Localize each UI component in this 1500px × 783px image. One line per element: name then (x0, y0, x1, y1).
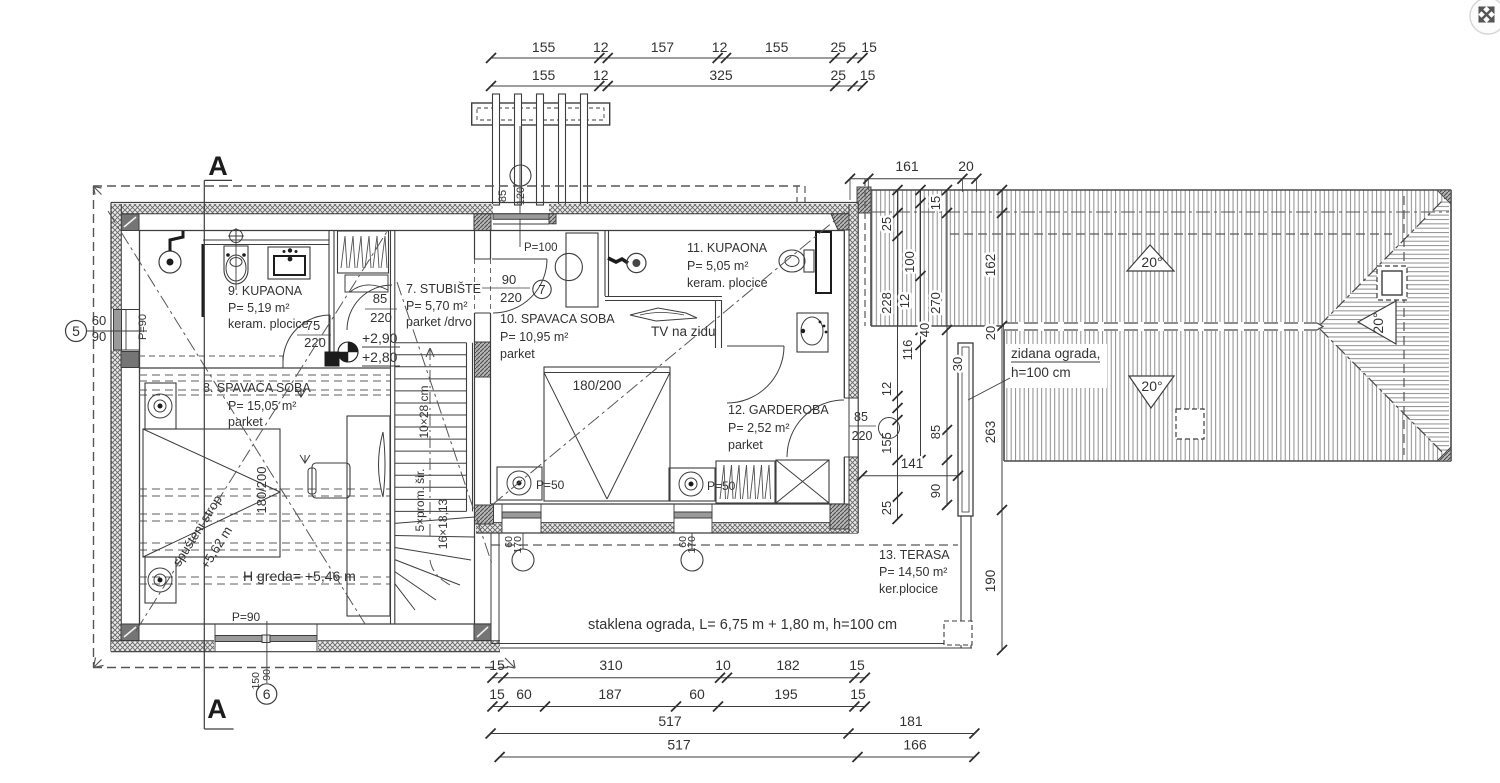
terrace fence zidana ograda upper (958, 343, 973, 516)
circled 5 marker (66, 321, 87, 342)
svg-text:181: 181 (899, 713, 923, 729)
dim extension from wall (849, 179, 851, 200)
svg-text:P= 14,50 m²: P= 14,50 m² (879, 565, 947, 579)
circled 7 (533, 280, 551, 298)
east bottom window 2 frame (674, 512, 712, 518)
svg-text:13. TERASA: 13. TERASA (879, 548, 950, 562)
shower counter line along top wall (203, 239, 329, 241)
stair diagonal dash-dot (397, 282, 492, 564)
east block bottom wall inner face (491, 503, 844, 505)
svg-text:parket: parket (228, 415, 263, 429)
window P=90 bottom frame (215, 636, 317, 642)
top wall inner face line (139, 230, 844, 232)
svg-text:220: 220 (370, 310, 392, 325)
svg-text:staklena ograda, L= 6,75 m + 1: staklena ograda, L= 6,75 m + 1,80 m, h=1… (588, 617, 897, 633)
svg-text:100: 100 (902, 251, 917, 273)
svg-text:90: 90 (92, 329, 106, 344)
svg-text:166: 166 (903, 737, 927, 753)
svg-text:P=90: P=90 (137, 314, 149, 340)
room10 door arc (493, 259, 547, 313)
roof lower band vertical hatch (1004, 326, 1451, 461)
toilet 9 (224, 246, 248, 284)
svg-text:15: 15 (860, 67, 876, 83)
terrace fence lower double line (960, 516, 962, 648)
svg-text:P= 2,52 m²: P= 2,52 m² (728, 421, 790, 435)
bathroom9 bottom wall solid line (139, 367, 390, 369)
svg-text:+2,90: +2,90 (362, 330, 398, 346)
tick row1 (594, 53, 604, 63)
stair winders (395, 517, 475, 523)
chimney C1 dashed outer (1377, 266, 1407, 300)
shower head circle (159, 251, 181, 273)
east bottom window 1 frame (502, 512, 541, 518)
east block bottom wall insulation hatch (476, 523, 502, 533)
top wall outer edge line (111, 202, 858, 204)
room10 bed outline (544, 367, 670, 501)
svg-text:20°: 20° (1370, 312, 1386, 333)
svg-text:162: 162 (983, 254, 998, 277)
overhang dashed vertical at terrace edge 2 (804, 186, 806, 203)
roof eave overhang dashed line top (950, 233, 1392, 235)
shower partition thick line (202, 244, 205, 317)
window downpipe circle 1 (522, 533, 524, 549)
roof eave overhang dashed line right (1403, 196, 1405, 455)
corner block top-left (121, 214, 139, 231)
room12 door arc (right wall) (787, 400, 844, 457)
svg-text:270: 270 (928, 292, 943, 314)
roof hip diagonal upper dashed (1320, 194, 1449, 325)
svg-text:60: 60 (516, 686, 532, 702)
svg-text:A: A (207, 694, 227, 724)
bottom dim row B line (492, 706, 865, 708)
stair-room10 wall line left (474, 230, 476, 259)
svg-text:12: 12 (897, 294, 912, 308)
room8 bed V lines (143, 429, 280, 492)
slope triangle 20 up (1127, 245, 1174, 271)
svg-text:keram. plocice: keram. plocice (228, 317, 309, 331)
stair right rail double line (466, 343, 468, 512)
dim 161-20 line (850, 178, 978, 180)
svg-text:220: 220 (852, 429, 873, 443)
svg-text:P=90: P=90 (232, 610, 261, 624)
room11-12 partition double line (715, 301, 717, 349)
vent circle-cross on wall (230, 230, 243, 243)
svg-text:90: 90 (928, 484, 943, 498)
svg-text:180/200: 180/200 (254, 467, 269, 514)
right wall inner face (843, 231, 845, 399)
room11 door leaf (727, 345, 784, 347)
svg-text:517: 517 (658, 713, 682, 729)
svg-text:60: 60 (689, 686, 705, 702)
slope triangle 20 down (1129, 376, 1174, 408)
pergola post 4 (559, 94, 566, 205)
svg-text:85: 85 (373, 291, 387, 306)
svg-text:85: 85 (497, 190, 509, 202)
svg-text:zidana ograda,: zidana ograda, (1011, 346, 1100, 361)
room8 chair (312, 463, 350, 498)
tick row1 (603, 53, 613, 63)
svg-text:20: 20 (983, 326, 998, 340)
tick row1 (486, 53, 496, 63)
svg-text:15: 15 (850, 686, 866, 702)
west block diagonal dash-dot 1 (136, 230, 388, 631)
svg-text:40: 40 (917, 323, 932, 337)
east block SE corner dark block (830, 504, 858, 529)
stair-room10 wall line right lower (490, 313, 492, 504)
window P=100 jamb left block (474, 214, 491, 231)
tick row1 (830, 53, 840, 63)
chimney C2 dashed (1176, 409, 1204, 439)
svg-text:16×18,13: 16×18,13 (436, 498, 450, 549)
svg-text:310: 310 (599, 657, 623, 673)
room8 ceiling mark M1 (296, 389, 306, 397)
roof hip white mask (1317, 193, 1451, 461)
east block bottom wall outer edge (476, 532, 858, 534)
bathroom9 closet hatched (338, 231, 389, 273)
svg-text:141: 141 (901, 456, 924, 471)
tick row1 (847, 53, 857, 63)
vertical dim line x1002 (1001, 190, 1003, 650)
bottom wall stair corner block (474, 624, 491, 641)
expand icon arrows (1479, 7, 1494, 22)
window P=100 sill lines (493, 223, 549, 225)
window P=90 left frame (114, 310, 122, 351)
bottom dim row A line (492, 677, 865, 679)
svg-text:228: 228 (879, 292, 894, 314)
room11 left wall double line (604, 231, 606, 296)
room11 shower glass dark rect (816, 232, 831, 293)
svg-text:25: 25 (831, 67, 847, 83)
room11 washbasin (797, 313, 828, 352)
room12 wardrobe X box (776, 460, 829, 503)
room11 bottom wall double line (605, 296, 722, 298)
svg-text:11. KUPAONA: 11. KUPAONA (687, 241, 768, 255)
left wall hatch inner line (120, 204, 122, 641)
pergola post 1 (493, 94, 500, 205)
svg-text:12: 12 (712, 39, 728, 55)
roof eave line between bands (871, 325, 1004, 327)
svg-text:90: 90 (502, 272, 516, 287)
circle marker on dim (879, 418, 900, 439)
shower arm (170, 231, 183, 251)
washbasin 9 outer (268, 247, 310, 279)
bottom wall west insulation hatch (111, 642, 214, 652)
tick row1 (858, 53, 868, 63)
svg-text:+2,80: +2,80 (362, 349, 398, 365)
vertical dim line x947 (946, 190, 948, 505)
black square marker (325, 352, 339, 366)
tick row2 (830, 81, 840, 91)
tick row2 (858, 81, 868, 91)
overhang dashed top (93, 185, 800, 187)
left wall outer edge line (110, 203, 112, 652)
room8 desk lens (379, 432, 386, 497)
svg-text:116: 116 (900, 340, 915, 361)
svg-text:10: 10 (715, 657, 731, 673)
svg-text:parket: parket (500, 347, 535, 361)
roof outline (871, 189, 1451, 191)
bottom wall west outer edge (111, 651, 500, 653)
svg-text:263: 263 (983, 421, 998, 444)
svg-text:8. SPAVAĆA SOBA: 8. SPAVAĆA SOBA (203, 380, 311, 395)
section line A bottom jog (204, 728, 233, 730)
expand button circle (1470, 0, 1500, 34)
svg-text:5: 5 (72, 323, 80, 339)
svg-text:12: 12 (879, 382, 894, 396)
overhang dashed bottom (93, 667, 514, 669)
svg-text:195: 195 (774, 686, 798, 702)
roof corner dark triangle top-left (857, 187, 871, 213)
tick row1 (721, 53, 731, 63)
svg-text:parket /drvo: parket /drvo (406, 315, 472, 329)
roof ridge white gap (1004, 322, 1317, 331)
roof ridge apex (1317, 323, 1323, 330)
bathroom9 right wall double line (328, 230, 330, 360)
svg-text:P= 15,05 m²: P= 15,05 m² (228, 399, 296, 413)
svg-text:P= 10,95 m²: P= 10,95 m² (500, 330, 568, 344)
roof corner triangle bottom-right (1437, 447, 1451, 461)
terrace dashed pillar (944, 621, 972, 645)
overhang dashed vertical at terrace edge 1 (796, 186, 798, 203)
svg-text:325: 325 (709, 67, 733, 83)
svg-text:6: 6 (263, 686, 271, 702)
bathroom9 door opening jamb (282, 356, 284, 368)
room10 radiator left box (497, 467, 542, 500)
pergola post 5 (581, 94, 588, 205)
terrace bottom glass fence double line (491, 643, 972, 645)
svg-text:15: 15 (489, 657, 505, 673)
terrace left edge line (490, 533, 492, 644)
tick row1 (713, 53, 723, 63)
terrace overhang dashed line (491, 544, 958, 546)
wall block bottom (475, 505, 494, 524)
left wall pier block below window (121, 352, 139, 368)
dim 141 horizontal (862, 475, 958, 477)
svg-text:10. SPAVACA SOBA: 10. SPAVACA SOBA (500, 312, 615, 326)
room8 nightstand top (145, 383, 176, 429)
roof hip diagonal lower dashed (1320, 329, 1449, 459)
level marker half circle (338, 342, 358, 362)
svg-text:20°: 20° (1141, 378, 1162, 394)
svg-text:15: 15 (849, 657, 865, 673)
toilet 9 stem line (235, 244, 237, 290)
svg-text:517: 517 (667, 737, 691, 753)
room10 boiler rect (566, 233, 598, 307)
svg-text:P=50: P=50 (536, 478, 565, 492)
pergola leader line to wall (519, 126, 521, 247)
corner block bottom-left (121, 624, 139, 641)
room8 desk tall (347, 416, 390, 616)
svg-text:25: 25 (879, 217, 894, 231)
roof ridge line upper (1004, 322, 1317, 324)
svg-text:P= 5,70 m²: P= 5,70 m² (406, 299, 468, 313)
overhang corner arrow bottom-right (505, 658, 515, 668)
corner block top-right dark triangle (831, 214, 851, 230)
svg-text:A: A (208, 151, 228, 181)
pergola circle marker (510, 165, 531, 186)
svg-text:P= 5,05 m²: P= 5,05 m² (687, 259, 749, 273)
stair treads (395, 342, 467, 344)
top dimension row 1 line (491, 57, 863, 59)
room11 door arc (727, 346, 784, 403)
svg-text:15: 15 (861, 39, 877, 55)
bathroom9 closet lower shelf (345, 275, 388, 292)
room10 boiler circle (555, 253, 582, 280)
room11 shower head (608, 258, 628, 263)
bathroom9 door arc (283, 315, 330, 362)
svg-text:220: 220 (500, 290, 522, 305)
overhang corner arrow bottom-left (94, 658, 104, 668)
top wall hatch band lower line (111, 213, 858, 215)
tick row2 (848, 81, 858, 91)
stair walk line arrow (426, 348, 434, 357)
top dimension row 2 line (491, 85, 863, 87)
chimney C1 inner (1382, 271, 1402, 295)
pergola beam outer (472, 103, 610, 125)
svg-text:85: 85 (854, 410, 868, 424)
svg-text:5×prom. šir.: 5×prom. šir. (413, 468, 427, 531)
svg-text:85: 85 (928, 425, 943, 439)
bathroom9 bottom wall dashed line (139, 355, 283, 357)
tick row2 (603, 81, 613, 91)
overhang dashed left (93, 186, 95, 667)
room10 door leaf line (492, 258, 547, 260)
svg-text:h=100 cm: h=100 cm (1011, 365, 1071, 380)
left wall inner face line (139, 231, 141, 625)
bottom dim row C line (491, 733, 975, 735)
svg-text:190: 190 (983, 570, 998, 593)
svg-text:P=100: P=100 (524, 242, 558, 254)
svg-text:9. KUPAONA: 9. KUPAONA (228, 284, 303, 298)
left wall insulation hatch band (111, 204, 121, 310)
room11 toilet (779, 250, 805, 272)
wall block mid (475, 342, 491, 377)
room8 bed outline (143, 429, 280, 557)
svg-text:157: 157 (651, 39, 675, 55)
vertical dim line x920 (920, 190, 922, 460)
svg-text:170: 170 (512, 536, 524, 554)
stair-room10 wall line right upper (490, 230, 492, 259)
pergola post 3 (537, 94, 544, 205)
right wall outer edge (857, 203, 859, 534)
washbasin 9 inner (274, 256, 305, 275)
circled 6 marker (256, 684, 276, 704)
roof upper band vertical hatch (871, 190, 1451, 326)
pergola beam inner dashed (477, 108, 604, 120)
section line A top jog (204, 179, 232, 181)
slope triangle 20 left (1358, 301, 1396, 344)
svg-text:20: 20 (958, 158, 974, 174)
east block bottom wall mid line (476, 522, 502, 524)
svg-text:parket: parket (728, 438, 763, 452)
top wall insulation hatch band (111, 204, 493, 214)
washbasin 9 dots (283, 250, 286, 253)
svg-text:keram. plocice: keram. plocice (687, 276, 768, 290)
svg-text:7: 7 (538, 282, 545, 297)
svg-text:TV na zidu: TV na zidu (651, 324, 716, 339)
roof corner triangle top-right (1437, 190, 1451, 204)
bottom wall west mid line (111, 640, 214, 642)
svg-text:15: 15 (489, 686, 505, 702)
svg-text:30: 30 (950, 357, 965, 371)
right wall insulation hatch (849, 204, 858, 398)
east block diagonal dash-dot (492, 212, 845, 505)
room8 nightstand bottom (145, 557, 176, 603)
svg-text:12: 12 (593, 39, 609, 55)
tick row2 (486, 81, 496, 91)
vertical dim line x897 (897, 190, 899, 519)
zidana ograda leader (968, 378, 1010, 400)
svg-text:155: 155 (532, 67, 556, 83)
west block diagonal dash-dot 2 (108, 211, 365, 624)
bottom dim row D line (500, 756, 975, 758)
roof ridge line lower (1004, 329, 1317, 331)
section line A vertical (203, 180, 205, 729)
svg-text:20°: 20° (1141, 254, 1162, 270)
window downpipe circle 2 (691, 533, 693, 549)
svg-text:25: 25 (831, 39, 847, 55)
svg-text:P= 5,19 m²: P= 5,19 m² (228, 301, 290, 315)
right wall hatch inner line (848, 204, 850, 533)
bottom wall west inner face (139, 623, 491, 625)
svg-text:12. GARDEROBA: 12. GARDEROBA (728, 403, 829, 417)
svg-text:155: 155 (765, 39, 789, 55)
window P=100 jamb right block (549, 214, 556, 224)
svg-text:187: 187 (598, 686, 622, 702)
stair walk line dash-dot (429, 348, 431, 540)
garderoba door jambs in right wall (844, 397, 858, 399)
svg-text:7. STUBIŠTE: 7. STUBIŠTE (406, 281, 481, 296)
svg-text:10×28 cm: 10×28 cm (417, 385, 431, 438)
stair door arc from bathroom (347, 285, 392, 330)
svg-text:60: 60 (92, 313, 106, 328)
overhang dashed vertical near roof (864, 179, 866, 326)
stair left wall double line (390, 230, 392, 624)
pergola post 2 (515, 94, 522, 205)
overhang corner arrow top-left (94, 187, 102, 195)
svg-text:220: 220 (304, 335, 326, 350)
svg-text:161: 161 (895, 158, 919, 174)
roof eave dash-dot line upper (871, 211, 1449, 213)
TV shape on wall (630, 308, 697, 321)
svg-text:155: 155 (532, 39, 556, 55)
window P=100 frame gray bar (493, 214, 549, 220)
svg-text:182: 182 (776, 657, 800, 673)
svg-text:ker.plocice: ker.plocice (879, 582, 938, 596)
svg-text:170: 170 (686, 536, 698, 554)
svg-text:12: 12 (593, 67, 609, 83)
svg-text:25: 25 (879, 501, 894, 515)
room8 ceiling dashed lines (139, 374, 390, 376)
door opening dashed lintel (490, 259, 492, 313)
room12 wardrobe hatched (716, 461, 775, 503)
room10 radiator right box (669, 468, 715, 501)
zidana ograda text (1006, 344, 1107, 388)
room10 bed V lines (544, 373, 607, 500)
svg-text:180/200: 180/200 (573, 378, 622, 393)
tick row2 (594, 81, 604, 91)
svg-text:15: 15 (928, 196, 943, 210)
